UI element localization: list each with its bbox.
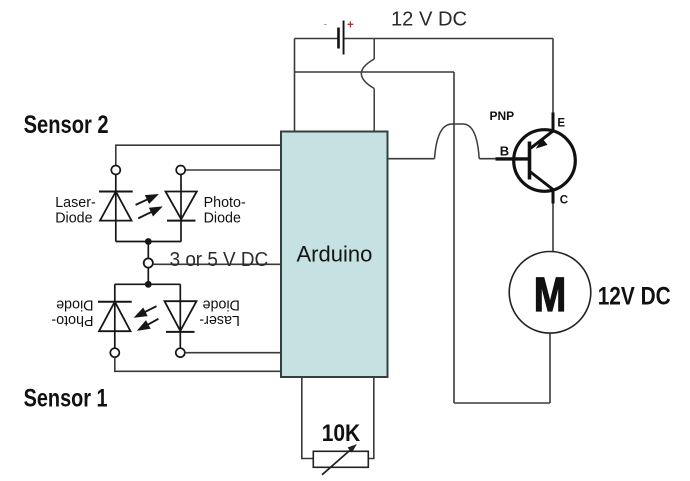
wire Vin upper segment [373, 39, 375, 60]
terminal sensor1 photo [110, 348, 119, 357]
wire laser circle through diode to rail [115, 175, 117, 242]
light arrows sensor 1 [136, 306, 158, 329]
terminal sensor1 laser [176, 348, 185, 357]
photo diode D3 (sensor 1) [98, 302, 132, 332]
svg-text:Diode: Diode [204, 210, 241, 226]
wire collector to motor [552, 204, 554, 252]
svg-text:Diode: Diode [56, 297, 93, 313]
wire return rail bottom [454, 402, 550, 404]
svg-text:C: C [560, 194, 568, 206]
svg-text:-: - [324, 19, 328, 31]
wire return rail vertical [453, 72, 455, 403]
label Photo-Diode (sensor 1, rotated) [51, 297, 93, 328]
laser diode D4 (sensor 1) [165, 301, 197, 332]
svg-text:Photo-: Photo- [204, 195, 246, 211]
light arrows sensor 2 [136, 195, 161, 218]
svg-text:12 V DC: 12 V DC [391, 7, 467, 30]
battery B1 [324, 19, 355, 55]
wire photo circle through diode to rail [180, 175, 182, 242]
svg-text:B: B [500, 143, 509, 158]
wire sensor2 common rail [116, 241, 181, 243]
svg-text:10K: 10K [322, 420, 361, 447]
wire sensor1 photo top through diode [114, 284, 116, 348]
wire supply terminal to Arduino [153, 263, 281, 265]
laser diode D1 (sensor 2) [99, 192, 133, 221]
Arduino U1 [281, 132, 388, 378]
wire Vin lower segment to Arduino top [373, 89, 375, 132]
wire hop over return rail [361, 59, 374, 89]
junction sensor2 common [145, 238, 152, 245]
svg-text:Sensor 2: Sensor 2 [24, 111, 109, 139]
svg-text:Laser-: Laser- [55, 195, 96, 211]
wire sensor1 laser top through diode [179, 284, 181, 348]
wire battery plus plate to right rail [344, 38, 553, 40]
svg-text:Arduino: Arduino [297, 241, 373, 266]
transistor Q1 PNP [496, 113, 576, 204]
svg-text:Diode: Diode [55, 210, 92, 226]
terminal sensor2 laser anode [111, 166, 120, 175]
wire Arduino base out [388, 158, 435, 160]
wire sensor1 laser to Arduino [185, 352, 281, 354]
label Laser-Diode (sensor 1, rotated) [199, 297, 240, 328]
svg-text:E: E [557, 118, 565, 130]
wire supply terminal down [147, 268, 149, 285]
wire sensor1 common rail [115, 283, 181, 285]
svg-text:PNP: PNP [490, 109, 515, 123]
wire hop to base lead [479, 158, 497, 160]
svg-text:Diode: Diode [202, 297, 239, 313]
svg-text:Sensor 1: Sensor 1 [24, 384, 108, 412]
svg-text:+: + [347, 19, 354, 31]
terminal 3-5V supply [144, 258, 153, 267]
wire Arduino bottom left to pot [302, 377, 314, 459]
svg-text:Laser-: Laser- [199, 312, 240, 328]
wire junction to supply terminal [147, 242, 149, 259]
svg-text:3 or 5 V DC: 3 or 5 V DC [170, 249, 269, 271]
wire battery left to minus plate [295, 38, 338, 40]
svg-text:12V DC: 12V DC [598, 282, 671, 310]
svg-text:M: M [534, 269, 567, 322]
wire return rail horizontal [295, 71, 455, 73]
terminal sensor2 photo cathode [176, 166, 185, 175]
wire sensor2 laser top to Arduino [116, 145, 281, 165]
svg-text:Photo-: Photo- [51, 312, 93, 328]
wire 12V rail down to emitter [552, 39, 554, 115]
wire sensor1 photo to Arduino [115, 357, 281, 371]
wire battery minus down to Arduino top [294, 39, 296, 132]
junction sensor1 common [145, 281, 152, 288]
motor M1 [509, 251, 591, 333]
wire Arduino bottom right to pot [368, 377, 374, 459]
wire hop over return rail (base wire) [435, 124, 480, 159]
photo diode D2 (sensor 2) [166, 192, 197, 221]
potentiometer R1 10K [313, 444, 368, 475]
wire motor bottom lead [549, 333, 551, 403]
wire sensor2 photo top to Arduino [185, 169, 281, 171]
